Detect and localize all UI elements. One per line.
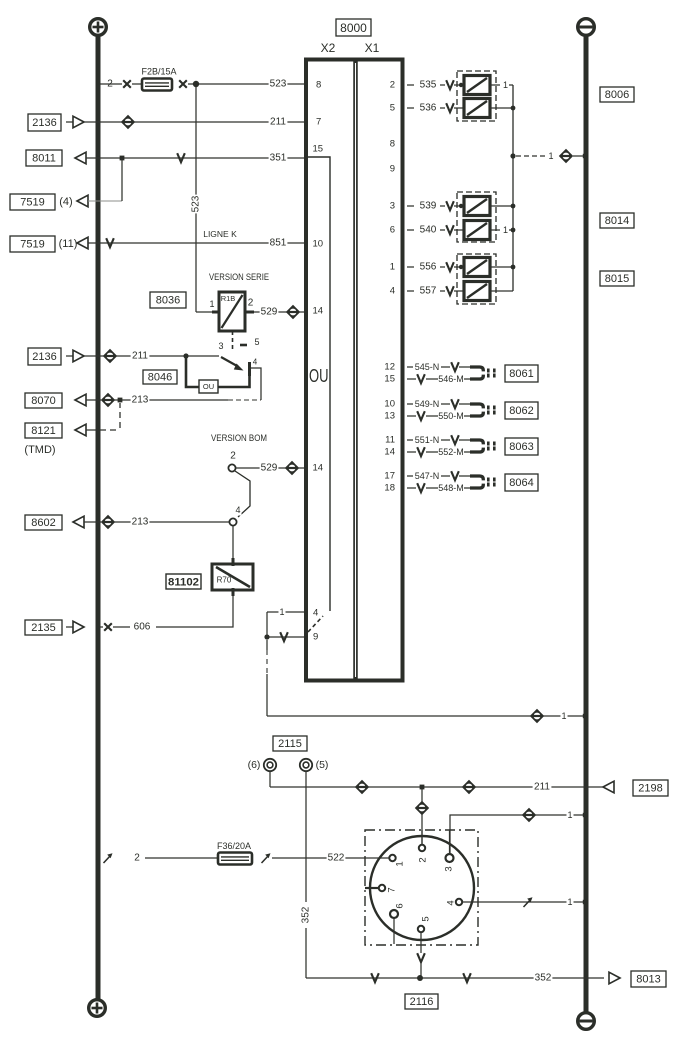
direction arrow 557 — [446, 286, 454, 295]
left supply bus — [96, 34, 101, 999]
svg-text:9: 9 — [313, 632, 318, 643]
direction arrow pin5 — [417, 953, 425, 962]
switch contact 4 bar — [248, 362, 251, 376]
svg-text:12: 12 — [384, 362, 395, 373]
direction arrow on 351 — [177, 153, 185, 162]
label 8602 — [25, 515, 62, 530]
junction node 213/8121 — [118, 398, 123, 403]
tick after fuse F36 — [262, 853, 271, 863]
arrow out 8602 — [73, 516, 84, 528]
pin 7 stub — [365, 887, 379, 889]
round connector 2116 dash-dot box — [365, 830, 478, 945]
arrow out 8121 — [75, 424, 86, 436]
label 8015 — [600, 271, 634, 286]
svg-text:2: 2 — [248, 298, 254, 309]
svg-text:4: 4 — [446, 900, 457, 905]
wire from contact 4 down to 213 — [251, 368, 261, 400]
tick on pin4 wire — [524, 897, 533, 907]
pin 5 circle — [418, 926, 424, 932]
label 8064 — [505, 474, 538, 491]
splice diamond pin2 wire — [415, 801, 429, 815]
splice X on 606 — [104, 623, 112, 631]
dashed link 8121 — [86, 429, 96, 431]
wire label 529 bom — [260, 462, 279, 474]
connector hooks 8061 — [470, 367, 496, 379]
svg-text:15: 15 — [384, 374, 395, 385]
pin 1 circle — [389, 855, 395, 861]
arrow into diagram 2136 — [66, 121, 73, 123]
label 2115 — [273, 736, 307, 751]
svg-text:1: 1 — [567, 897, 572, 907]
fuse F2B/15A — [142, 79, 172, 91]
svg-text:(TMD): (TMD) — [24, 444, 55, 456]
label 2135 — [25, 620, 62, 635]
wire 522 — [272, 857, 389, 859]
wire 557 from X1 — [407, 290, 414, 292]
wire label 352 bottom — [534, 972, 553, 984]
wire label 523 vertical — [190, 195, 202, 214]
svg-text:9: 9 — [390, 164, 395, 175]
wire 523 vertical drop — [195, 87, 197, 312]
label 2116 — [405, 994, 438, 1009]
svg-text:352: 352 — [301, 906, 312, 923]
label 8070 — [25, 393, 62, 408]
svg-text:529: 529 — [261, 463, 278, 474]
pin 2 stub — [421, 830, 423, 845]
svg-text:8602: 8602 — [31, 517, 55, 529]
wire label 211 bottom — [533, 781, 552, 793]
connector hooks 8062 — [470, 404, 496, 416]
svg-text:8070: 8070 — [31, 395, 55, 407]
svg-text:1: 1 — [279, 607, 284, 617]
label 2136 top — [28, 114, 61, 131]
svg-text:211: 211 — [534, 782, 550, 793]
collector node 267 — [511, 265, 516, 270]
splice diamond collector — [559, 149, 573, 163]
arrow into diagram 2136 mid — [66, 355, 73, 357]
dashed box lamps 8014 — [457, 192, 496, 242]
pin 4 stub and wire 1 to bus — [462, 901, 584, 903]
svg-text:211: 211 — [270, 117, 286, 128]
label 8014 — [600, 213, 634, 228]
svg-text:8062: 8062 — [509, 405, 533, 417]
arrow out 8070 — [75, 394, 86, 406]
svg-text:2: 2 — [418, 857, 429, 862]
direction arrow pin 9 wire — [280, 632, 288, 641]
svg-text:3: 3 — [444, 866, 455, 871]
junction on wire 351 — [120, 156, 125, 161]
relay pin 2 stub — [245, 311, 254, 314]
arrow out 2198 — [603, 781, 614, 793]
svg-text:2135: 2135 — [31, 622, 55, 634]
svg-text:8: 8 — [390, 139, 395, 150]
wire 545-N — [407, 366, 413, 368]
wire 352 bottom — [306, 977, 604, 979]
wire 546-M — [407, 378, 416, 380]
label 8006 — [600, 87, 634, 102]
svg-text:R70: R70 — [217, 576, 232, 585]
wire label 352 vertical — [301, 906, 312, 923]
splice diamond on 211 — [121, 115, 135, 129]
bom pin 2 circle — [228, 464, 235, 471]
svg-text:8015: 8015 — [605, 273, 629, 285]
label 7519 (11) — [10, 236, 55, 252]
svg-text:R1B: R1B — [221, 294, 236, 303]
wire 551-N — [407, 439, 413, 441]
wire 556 from X1 — [407, 266, 414, 268]
svg-text:552-M: 552-M — [438, 447, 464, 457]
bom switch blade — [235, 471, 250, 517]
right bus bottom battery - terminal — [578, 1013, 595, 1030]
node at lamp 535 — [459, 83, 463, 87]
wire 539 from X1 — [407, 205, 414, 207]
svg-text:OU: OU — [203, 382, 214, 391]
direction arrow 352 b — [463, 973, 471, 982]
arrow out 8011 — [75, 152, 86, 164]
svg-text:(4): (4) — [59, 196, 72, 208]
X2 internal sub-connector line — [308, 157, 330, 611]
wire label 211 — [269, 116, 288, 128]
svg-text:351: 351 — [270, 153, 287, 164]
relay R1B 8036 body — [219, 292, 245, 331]
collector vertical right of lamps — [512, 85, 514, 291]
wire 536 from X1 — [407, 107, 414, 109]
direction arrow 539 — [446, 201, 454, 210]
junction node on 211 — [183, 353, 188, 358]
node at right bus 156 — [583, 154, 587, 158]
svg-text:7519: 7519 — [20, 239, 44, 251]
svg-text:556: 556 — [420, 262, 437, 273]
wire 557 to collector — [490, 290, 513, 292]
svg-text:8063: 8063 — [509, 441, 533, 453]
svg-text:8121: 8121 — [31, 425, 55, 437]
svg-text:352: 352 — [535, 973, 552, 984]
svg-text:X1: X1 — [365, 41, 380, 55]
svg-text:3: 3 — [390, 201, 395, 212]
svg-text:213: 213 — [132, 395, 149, 406]
connector hooks 8063 — [470, 440, 496, 452]
label 8036 — [150, 292, 186, 308]
lamp 540 — [464, 221, 490, 240]
wire 535 from X1 — [407, 84, 414, 86]
pin 3 stub — [449, 830, 451, 854]
svg-text:F2B/15A: F2B/15A — [141, 67, 176, 77]
label 81102 — [166, 574, 201, 589]
wire 2 to fuse F2B — [100, 83, 122, 85]
wire 213 upper — [86, 399, 101, 401]
svg-text:2: 2 — [107, 79, 113, 90]
wire 535 to collector — [490, 84, 500, 86]
wire 351 to pin 15 — [86, 157, 304, 159]
wire to pin 9 — [267, 636, 304, 638]
svg-text:8000: 8000 — [340, 21, 367, 35]
wire label 1 pin4 bottom — [566, 897, 573, 908]
junction node pin9 wire — [264, 634, 269, 639]
pin 7 circle — [379, 885, 385, 891]
label 8000 — [336, 19, 371, 36]
label 8121 — [25, 423, 62, 438]
left bus top battery + terminal — [90, 19, 107, 36]
svg-text:550-M: 550-M — [438, 411, 464, 421]
wire label 213 lower — [131, 516, 150, 528]
svg-text:8064: 8064 — [509, 477, 533, 489]
connector column divider X2/X1 — [353, 61, 358, 679]
splice X on wire 2 — [123, 80, 131, 88]
svg-text:14: 14 — [313, 306, 324, 317]
wire 211 bottom — [270, 786, 603, 788]
pin 3 circle — [446, 854, 454, 862]
svg-text:OU: OU — [309, 366, 329, 386]
svg-text:7519: 7519 — [20, 197, 44, 209]
wire label 1 pin4 — [278, 607, 285, 618]
svg-text:2: 2 — [390, 80, 395, 91]
splice diamond 211b — [462, 780, 476, 794]
label 2136 mid — [28, 348, 61, 365]
svg-text:1: 1 — [390, 262, 395, 273]
splice diamond on bus wire — [530, 709, 544, 723]
junction node 211 — [420, 785, 425, 790]
svg-text:7: 7 — [387, 887, 398, 892]
splice diamond 213 upper — [101, 393, 115, 407]
arrow out 7519-4 — [77, 195, 88, 207]
svg-text:3: 3 — [218, 341, 223, 351]
wire 1 from pin3 to bus — [450, 815, 584, 854]
svg-text:548-M: 548-M — [438, 483, 464, 493]
svg-text:(6): (6) — [248, 759, 261, 771]
svg-text:2116: 2116 — [410, 996, 434, 1008]
lamp 557 — [464, 282, 490, 301]
svg-text:10: 10 — [313, 239, 324, 250]
wire 213 to switch — [122, 399, 228, 401]
svg-text:540: 540 — [420, 225, 437, 236]
wire 540 to collector — [490, 229, 500, 231]
svg-text:X2: X2 — [321, 41, 336, 55]
svg-text:8: 8 — [316, 80, 321, 91]
svg-text:8046: 8046 — [148, 372, 172, 384]
wire across to right bus — [267, 715, 584, 717]
svg-text:10: 10 — [384, 399, 395, 410]
relay pin 3 dashed link — [232, 331, 234, 352]
node at right bus 716 — [583, 714, 587, 718]
svg-text:14: 14 — [384, 447, 395, 458]
svg-text:4: 4 — [313, 608, 318, 619]
svg-text:F36/20A: F36/20A — [217, 841, 251, 851]
svg-text:6: 6 — [395, 903, 406, 908]
internal switch dashed link pins 4-9 — [308, 616, 323, 632]
svg-text:8011: 8011 — [32, 153, 56, 165]
collector node 206 — [511, 204, 516, 209]
svg-text:(11): (11) — [59, 238, 78, 250]
wire 211 to switch — [84, 355, 219, 357]
wire eyelet5 down 352 — [305, 771, 307, 902]
splice diamond on 211 mid — [103, 349, 117, 363]
pin 6 circle — [390, 910, 398, 918]
right bus top battery - terminal — [578, 19, 595, 36]
wire pin2 vertical — [421, 789, 423, 845]
wire R70 to 606 — [156, 594, 233, 627]
node at bus 815 — [583, 813, 587, 817]
splice diamond pin3 wire — [522, 808, 536, 822]
svg-text:VERSION SERIE: VERSION SERIE — [209, 272, 269, 282]
wire label 523 — [269, 78, 288, 90]
svg-text:5: 5 — [421, 916, 432, 921]
svg-text:536: 536 — [420, 103, 437, 114]
label 8063 — [505, 438, 538, 455]
eyelet (5) — [300, 759, 312, 771]
eyelet (6) — [264, 759, 276, 771]
R70 bottom lead — [232, 588, 235, 596]
wire 213 lower — [84, 521, 101, 523]
wire label 213 upper — [131, 394, 150, 406]
R70 top lead — [232, 558, 235, 566]
wire label 1 pin3 — [566, 810, 573, 821]
svg-text:2115: 2115 — [278, 738, 302, 750]
svg-text:523: 523 — [191, 195, 202, 212]
pin 1 rotated label — [395, 861, 406, 866]
node at lamp 556 — [459, 265, 463, 269]
svg-text:523: 523 — [270, 79, 287, 90]
tick at bus wire 522 — [104, 853, 113, 863]
svg-text:5: 5 — [390, 103, 395, 114]
svg-text:546-M: 546-M — [438, 374, 464, 384]
svg-text:529: 529 — [261, 307, 278, 318]
wire 851 LIGNE K to pin 10 — [88, 242, 304, 244]
svg-text:539: 539 — [420, 201, 437, 212]
lamp 556 — [464, 258, 490, 277]
resistor R70 body — [212, 564, 253, 590]
label 8046 — [143, 370, 177, 384]
dashed box lamps 8006 — [457, 71, 496, 121]
pin 5 stub down — [420, 932, 422, 953]
control unit 8000 outline — [306, 60, 403, 681]
svg-text:211: 211 — [132, 351, 148, 362]
svg-text:4: 4 — [253, 358, 258, 367]
lamp 535 — [464, 76, 490, 95]
svg-text:14: 14 — [313, 463, 324, 474]
svg-text:535: 535 — [420, 80, 437, 91]
svg-text:1: 1 — [209, 299, 214, 309]
svg-text:549-N: 549-N — [415, 399, 440, 409]
switch blade contact 3 — [221, 357, 238, 367]
wire 529 serie to pin 14 — [254, 311, 304, 313]
wire 552-M — [407, 451, 416, 453]
OU box small — [199, 380, 218, 393]
splice diamond 529 serie — [286, 305, 300, 319]
wire label 351 — [269, 152, 288, 164]
wire 523 horizontal — [199, 83, 304, 85]
svg-text:2136: 2136 — [32, 117, 56, 129]
svg-text:1: 1 — [567, 810, 572, 820]
svg-text:1: 1 — [503, 225, 508, 235]
wire fuse to node — [188, 83, 193, 85]
svg-text:7: 7 — [316, 117, 321, 128]
svg-text:2136: 2136 — [32, 351, 56, 363]
collector mid node — [510, 153, 515, 158]
wire pin4 down to resistor — [232, 526, 234, 560]
junction node 352 — [417, 975, 423, 981]
svg-text:5: 5 — [254, 337, 259, 347]
round connector 2116 circle — [370, 836, 474, 940]
collector node 108 — [511, 106, 516, 111]
wire label 529 serie — [260, 306, 279, 318]
wire label 851 — [269, 237, 288, 249]
splice X after fuse — [179, 80, 187, 88]
svg-text:8014: 8014 — [605, 215, 629, 227]
wire 550-M — [407, 415, 416, 417]
svg-text:8036: 8036 — [156, 295, 180, 307]
wire 536 to collector — [490, 107, 513, 109]
svg-text:8061: 8061 — [509, 368, 533, 380]
svg-text:606: 606 — [134, 622, 151, 633]
wire from eyelet 6 down — [269, 771, 271, 787]
svg-text:1: 1 — [395, 861, 406, 866]
direction arrow 556 — [446, 262, 454, 271]
lamp 539 — [464, 197, 490, 216]
svg-text:8013: 8013 — [636, 974, 660, 986]
pin 6 stub — [393, 918, 395, 944]
label 8011 — [26, 150, 62, 166]
arrow into diagram 2135 — [66, 626, 73, 628]
node at bus 902 — [583, 900, 587, 904]
wire 556 to collector — [490, 266, 513, 268]
splice diamond 211a — [355, 780, 369, 794]
vertical link 612-637 — [266, 612, 268, 637]
wire label 1 collector — [547, 151, 554, 162]
label 8062 — [505, 402, 538, 419]
wire 1 to inner pin 4 — [267, 611, 304, 613]
wire 547-N — [407, 475, 413, 477]
vertical wire down from pin9 node — [266, 640, 268, 650]
svg-text:4: 4 — [235, 505, 240, 515]
arrow out 8013 — [609, 972, 620, 984]
svg-text:1: 1 — [503, 80, 508, 90]
wire 2 to fuse F36 — [145, 857, 218, 859]
bom pin 4 circle — [229, 518, 236, 525]
wire label 1 lower — [560, 711, 567, 722]
wire 606 left part — [113, 626, 130, 628]
svg-text:1: 1 — [548, 151, 553, 161]
wire 529 bom to pin 14 — [236, 467, 304, 469]
svg-text:4: 4 — [390, 286, 395, 297]
arrow out 7519-11 — [77, 237, 88, 249]
svg-text:(5): (5) — [316, 759, 329, 771]
direction arrow 536 — [446, 103, 454, 112]
svg-text:8006: 8006 — [605, 89, 629, 101]
direction arrow 352 a — [371, 973, 379, 982]
svg-text:17: 17 — [384, 471, 395, 482]
wire 540 from X1 — [407, 229, 414, 231]
node at lamp 539 — [459, 204, 463, 208]
wire 549-N — [407, 403, 413, 405]
svg-text:11: 11 — [385, 435, 395, 446]
stub wire 7519-4 — [88, 200, 122, 202]
svg-text:851: 851 — [270, 238, 287, 249]
svg-text:213: 213 — [132, 517, 149, 528]
direction arrow 540 — [446, 225, 454, 234]
label 2198 — [633, 780, 668, 796]
wire 548-M — [407, 487, 416, 489]
pin 2 circle — [419, 845, 425, 851]
contact 5 tick — [240, 344, 247, 347]
dashed box lamps 8015 — [457, 254, 496, 304]
label 7519 (4) — [10, 194, 55, 210]
left bus bottom battery + terminal — [89, 1000, 106, 1017]
svg-text:2: 2 — [134, 853, 140, 864]
direction arrow 535 — [446, 80, 454, 89]
svg-text:547-N: 547-N — [415, 471, 440, 481]
wire 523 into relay pin 1 — [196, 311, 212, 313]
svg-text:557: 557 — [420, 286, 437, 297]
